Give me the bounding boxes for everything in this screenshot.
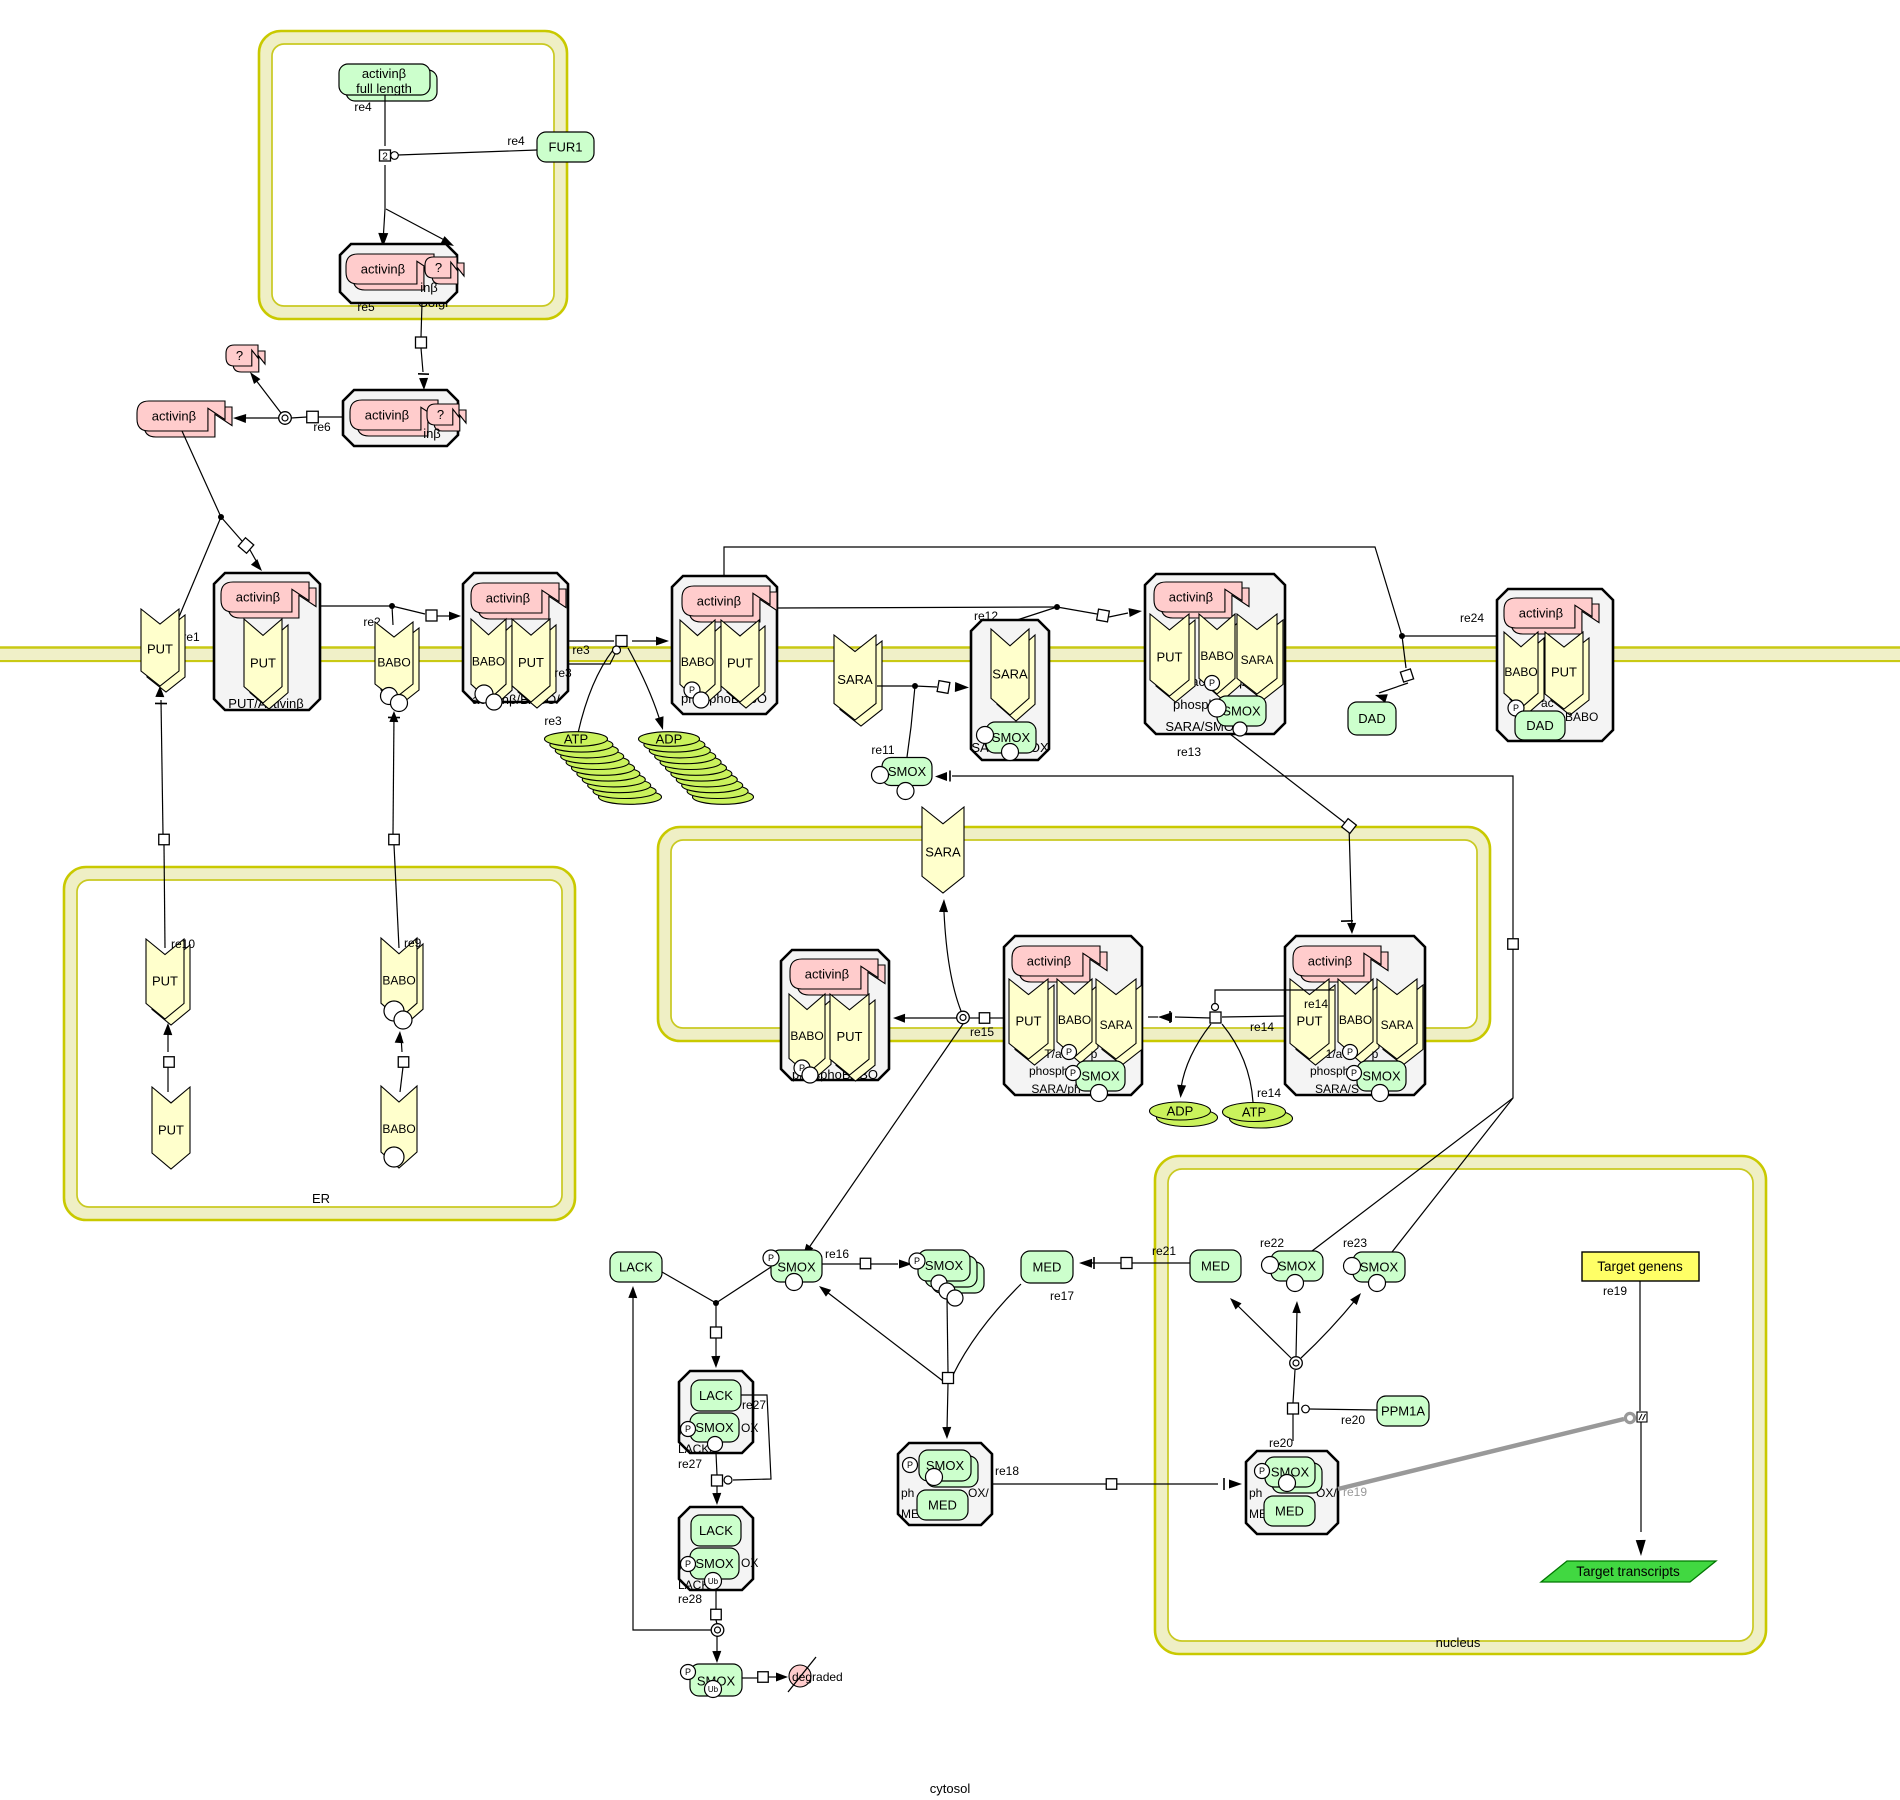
svg-text:SMOX: SMOX [777,1260,816,1275]
simple molecule ADP stack [693,790,754,805]
protein MED in nucleus [1190,1250,1241,1282]
svg-text:activinβ: activinβ [1027,954,1071,969]
svg-text:BABO: BABO [1339,1013,1372,1027]
svg-text:P: P [1066,1047,1072,1057]
reaction re12 junction [1054,604,1060,610]
svg-text:re20: re20 [1341,1413,1365,1427]
reaction re1 lines [176,431,262,644]
truncated protein ? fragment [226,345,265,372]
svg-text:BABO: BABO [1058,1013,1091,1027]
ER BABO process node [398,1057,409,1068]
svg-text:re23: re23 [1343,1236,1367,1250]
svg-text:inβ: inβ [420,280,438,295]
svg-text:re16: re16 [825,1247,849,1261]
svg-text:re28: re28 [678,1592,702,1606]
svg-text:SARA: SARA [925,844,961,859]
reaction re16 line [822,1260,912,1269]
svg-text:P: P [1259,1466,1265,1476]
svg-text:2: 2 [382,152,388,163]
complex SARA/SMOX [971,620,1049,761]
svg-text:re5: re5 [357,300,375,314]
svg-text:re10: re10 [171,937,195,951]
complex ?/activinβ post-Golgi [343,390,466,446]
svg-text:P: P [914,1256,920,1266]
svg-text:SARA: SARA [837,672,873,687]
svg-text:BABO: BABO [1504,665,1537,679]
svg-text:P: P [907,1460,913,1470]
svg-text:1/a: 1/a [1326,1047,1343,1061]
svg-text:activinβ: activinβ [697,594,741,609]
svg-text:P: P [1513,703,1519,713]
svg-text:re13: re13 [1177,745,1201,759]
svg-text:DAD: DAD [1358,711,1385,726]
svg-text:P: P [685,1667,691,1677]
svg-text:activinβ: activinβ [361,262,405,277]
protein phosphoSMOX-Ub [681,1664,743,1698]
reaction re9 transport arrow into BABO [388,711,400,948]
svg-text:activinβ: activinβ [365,408,409,423]
svg-text:ATP: ATP [564,732,588,747]
svg-text:activinβ: activinβ [152,409,196,424]
svg-text:re24: re24 [1460,611,1484,625]
svg-text:OX/: OX/ [968,1486,989,1500]
svg-text:SARA/ph: SARA/ph [1031,1082,1080,1096]
svg-text:BABO: BABO [1200,649,1233,663]
receptor SARA at membrane [840,641,882,726]
svg-text:SARA: SARA [992,666,1028,681]
reaction re15 dissociation symbol [957,1011,970,1024]
svg-text:re3: re3 [572,643,590,657]
svg-text:LACK: LACK [619,1260,653,1275]
reaction re28 process node upper [712,1475,723,1486]
complex phosphoSMOX/MED nuclear [1246,1451,1338,1534]
svg-text:MED: MED [928,1498,957,1513]
reaction re15 process node [979,1013,990,1024]
svg-text:ER: ER [312,1191,330,1206]
receptor PUT at membrane [147,615,185,692]
svg-text:activinβ: activinβ [1169,590,1213,605]
gene Target genens [1582,1252,1699,1281]
cell membrane [0,649,1900,660]
reaction re4 main line [378,95,454,247]
svg-text:SMOX: SMOX [992,730,1031,745]
reaction re18 process node upper [943,1373,954,1384]
reaction re14 process node [1210,1012,1221,1023]
reaction re20 process node [1288,1403,1378,1427]
svg-text:re17: re17 [1050,1289,1074,1303]
protein MED cytosolic [1021,1251,1073,1283]
protein SMOX nuclear re23 [1344,1252,1406,1292]
svg-text:re21: re21 [1152,1244,1176,1258]
reaction re6 process node [307,411,319,423]
truncated protein activinβ dimer [137,401,232,437]
reaction re27 association lines [662,1267,771,1368]
protein LACK free [610,1252,662,1282]
svg-text:P: P [685,1559,691,1569]
reaction re27 modifier loop from LACK [724,1395,771,1484]
svg-text:re4: re4 [507,134,525,148]
reaction re27 junction [713,1300,719,1306]
reaction re12 lines [777,607,1142,623]
svg-text:PUT: PUT [250,655,276,670]
svg-text:re19: re19 [1603,1284,1627,1298]
reaction re15 lines [803,899,1004,1256]
complex PUT/activinβ [214,573,320,711]
svg-text:re3: re3 [554,666,572,680]
svg-text:BABO: BABO [1565,710,1598,724]
reaction re5 transport line [357,300,429,390]
svg-text:SMOX: SMOX [695,1556,734,1571]
svg-text:re9: re9 [404,936,422,950]
svg-text:activinβ: activinβ [362,66,406,81]
svg-text:re4: re4 [354,100,372,114]
receptor PUT in ER lower [152,1087,190,1169]
reaction re24 long line from phosphoBABO complex [724,547,1496,703]
svg-text:SMOX: SMOX [695,1420,734,1435]
reaction re20 line to complex [1269,1414,1293,1450]
svg-text:ph: ph [901,1486,914,1500]
svg-text:P: P [1351,1068,1357,1078]
svg-text:OX: OX [741,1556,758,1570]
svg-text:BABO: BABO [790,1029,823,1043]
svg-text:P: P [768,1253,774,1263]
svg-text:activinβ: activinβ [486,591,530,606]
svg-text:re3: re3 [544,714,562,728]
svg-text:P: P [1347,1047,1353,1057]
protein FUR1 [537,132,594,162]
svg-text:MED: MED [1201,1259,1230,1274]
reaction re13 transport line to endosome [1230,734,1356,934]
svg-text:re12: re12 [974,609,998,623]
svg-text:PUT: PUT [1551,665,1577,680]
protein phosphoSMOX trimer [909,1250,984,1306]
svg-text:p: p [1372,1047,1379,1061]
svg-text:BABO: BABO [681,655,714,669]
reaction re21 process node [1121,1258,1132,1269]
reaction re6 dissociation symbol [279,412,292,425]
simple molecule ADP in endosome [1157,1109,1218,1127]
protein phosphoSMOX [763,1250,822,1291]
svg-text:SMOX: SMOX [1081,1069,1120,1084]
svg-text:P: P [685,1424,691,1434]
svg-text:PUT: PUT [158,1122,184,1137]
svg-text:?: ? [236,348,243,363]
complex phosphoBABO at membrane [672,576,777,714]
simple molecule ATP stack [599,790,662,805]
receptor SARA above endosome [922,807,964,893]
svg-text:BABO: BABO [382,1122,415,1136]
protein SMOX nuclear re22 [1262,1251,1324,1292]
svg-text:SARA: SARA [1241,653,1274,667]
svg-text:MED: MED [1275,1504,1304,1519]
svg-text:SMOX: SMOX [888,764,927,779]
ER BABO transport reaction [395,1031,404,1092]
reaction re2 process node [426,610,437,621]
svg-text:Target genens: Target genens [1597,1259,1683,1274]
svg-text:SMOX: SMOX [1222,704,1261,719]
protein SMOX cytosolic [872,758,933,800]
svg-text:OX: OX [741,1421,758,1435]
reaction re9 process node [389,834,400,845]
complex activinβ/BABO/PUT/DAD [1497,589,1613,741]
svg-text:inβ: inβ [423,426,441,441]
svg-text:ph: ph [1249,1486,1262,1500]
reaction re28 dissociation symbol [711,1624,724,1637]
reaction re12 process node [1097,609,1110,622]
svg-text:full length: full length [356,81,412,96]
svg-text:PUT: PUT [518,655,544,670]
svg-text:P: P [1209,678,1215,688]
svg-text:SARA: SARA [1100,1018,1133,1032]
reaction re2 lines [320,606,461,629]
svg-text:re18: re18 [995,1464,1019,1478]
svg-text:re15: re15 [970,1025,994,1039]
svg-text:SMOX: SMOX [1278,1259,1317,1274]
reaction re21 transport line [1079,1244,1190,1269]
reaction re27 process node [711,1327,722,1338]
svg-text:LACK: LACK [699,1388,733,1403]
svg-text:p: p [1091,1047,1098,1061]
svg-text:SMOX: SMOX [1360,1260,1399,1275]
svg-text:SMOX: SMOX [925,1258,964,1273]
svg-text:ADP: ADP [1167,1104,1194,1119]
svg-text:T/a: T/a [1044,1047,1062,1061]
reaction re18 association lines [819,1284,1021,1439]
reaction re19 trigger modifier from complex [1338,1413,1635,1499]
complex endosome right PUT/activinβ/phosphoSARA/SMOX [1285,936,1425,1102]
compartment endosome [658,827,1490,1041]
reaction re18 process node lower [1106,1479,1117,1490]
svg-text:Ub: Ub [708,1577,719,1586]
receptor BABO in ER upper [381,936,423,1029]
reaction re10 process node [159,834,170,845]
svg-text:PPM1A: PPM1A [1381,1404,1425,1419]
receptor PUT in ER upper [146,937,195,1025]
receptor BABO at membrane [375,622,419,712]
complex phosphoSMOX/LACK [678,1371,758,1456]
reactions re22 re23 nuclear export lines [935,771,1513,1253]
protein activinβ full length [339,64,437,101]
reaction re24 junction [1399,633,1405,639]
svg-text:ME: ME [901,1507,919,1521]
complex endosome PUT/activinβ/phosphoSARA/SMOX [1004,936,1142,1102]
reaction re14 lines [1148,990,1334,1102]
complex activinβ/BABO/PUT [463,573,568,710]
reaction re28 dissociation lines [628,1286,721,1663]
simple molecule ATP in endosome [1230,1109,1293,1128]
svg-text:PUT: PUT [147,642,173,657]
ER PUT transport reaction [163,1023,172,1092]
svg-text:re11: re11 [871,743,894,757]
reaction re1 process node [238,538,254,554]
reaction re11 process node [937,681,950,694]
protein DAD free [1348,702,1396,735]
reaction re11 lines [871,682,969,757]
svg-text:cytosol: cytosol [930,1781,971,1796]
svg-text:re22: re22 [1260,1236,1284,1250]
reaction re18 transport line to nucleus [992,1478,1242,1490]
svg-text:PUT: PUT [727,655,753,670]
reaction re6 line [233,372,343,434]
svg-text:Ub: Ub [708,1685,719,1694]
reaction re27 to re28 line [712,1453,721,1505]
svg-text:re27: re27 [742,1398,766,1412]
svg-text:PUT: PUT [1297,1013,1323,1028]
reaction re1 junction [218,514,224,520]
svg-text:degraded: degraded [792,1670,843,1684]
reaction degradation process node [758,1672,769,1683]
receptor BABO in ER lower [381,1086,417,1168]
svg-text:PUT: PUT [1016,1013,1042,1028]
svg-text:SMOX: SMOX [1362,1069,1401,1084]
svg-text:re14: re14 [1250,1020,1274,1034]
reaction re11 junction [912,683,918,689]
svg-text:DAD: DAD [1526,718,1553,733]
svg-text:Target transcripts: Target transcripts [1576,1564,1680,1579]
reaction re16 process node [860,1258,871,1269]
complex ?/activinβ in Golgi [340,244,464,303]
reaction re20 dissociation lines [1230,1293,1361,1403]
reaction re19 transcription line [1636,1281,1646,1556]
svg-text:FUR1: FUR1 [549,140,583,155]
reaction re5 process node [416,337,427,348]
compartment ER [64,867,575,1220]
reaction re3 lines [544,637,669,734]
degraded phenotype symbol [788,1657,843,1692]
svg-text:re14: re14 [1257,1086,1281,1100]
complex phosphoBABO in endosome [781,950,889,1083]
RNA Target transcripts [1541,1561,1716,1582]
svg-text:ATP: ATP [1242,1105,1266,1120]
svg-text:nucleus: nucleus [1436,1635,1481,1650]
reactions re22 re23 process node [1508,939,1519,950]
reaction re10 transport arrow into PUT [155,686,167,948]
reaction re28 process node [711,1609,722,1620]
reaction degradation line [742,1673,788,1682]
svg-text:re27: re27 [678,1457,702,1471]
complex phosphoSMOX/MED cytosolic [898,1443,992,1525]
svg-text:activinβ: activinβ [236,590,280,605]
compartment nucleus [1155,1156,1766,1654]
svg-text:activinβ: activinβ [805,967,849,982]
svg-text:activinβ: activinβ [1308,954,1352,969]
svg-text:activinβ: activinβ [1519,606,1563,621]
svg-text:BABO: BABO [377,655,410,669]
svg-text:?: ? [437,407,444,422]
ER PUT process node [164,1057,175,1068]
reaction re19 process node with slashes [1637,1412,1647,1422]
svg-text:BABO: BABO [472,654,505,668]
svg-text:re19: re19 [1343,1485,1367,1499]
reaction re20 dissociation symbol [1290,1357,1303,1370]
reaction re13 process node [1342,819,1357,834]
svg-text:re14: re14 [1304,997,1328,1011]
svg-text:SARA/S: SARA/S [1315,1082,1359,1096]
svg-text:BABO: BABO [382,973,415,987]
complex phosphoSMOX-Ub/LACK [678,1507,758,1592]
reaction re4 process node with stoichiometry 2 [380,150,391,163]
svg-text:?: ? [435,260,442,275]
svg-text:PUT: PUT [1157,649,1183,664]
svg-text:PUT: PUT [837,1029,863,1044]
compartment Golgi [259,31,567,319]
svg-text:MED: MED [1033,1260,1062,1275]
svg-text:SARA: SARA [1381,1018,1414,1032]
complex phosphoSARA/SMOX receptor complex at membrane [1145,574,1285,736]
svg-text:LACK: LACK [699,1523,733,1538]
svg-text:PUT: PUT [152,973,178,988]
svg-text:P: P [1070,1068,1076,1078]
protein PPM1A [1377,1396,1429,1426]
reaction re4 catalysis from FUR1 [391,134,537,159]
svg-text:re20: re20 [1269,1436,1293,1450]
reaction re24 process node [1400,669,1413,682]
reaction re3 process node [616,636,627,647]
svg-text:ADP: ADP [656,732,683,747]
reaction re2 junction [389,603,395,609]
svg-text:P: P [689,685,695,695]
